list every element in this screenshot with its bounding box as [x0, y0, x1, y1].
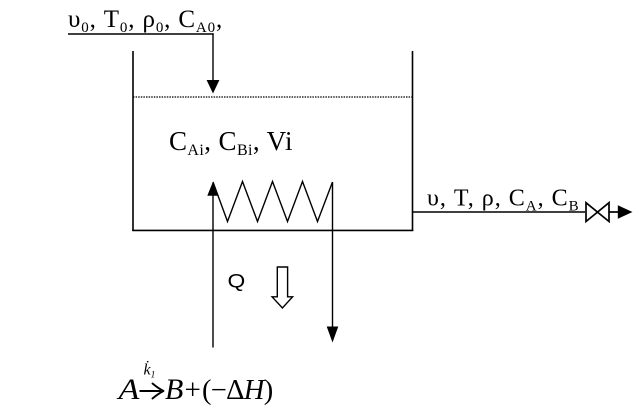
svg-text:+: + — [185, 374, 201, 406]
outlet arrowhead — [618, 205, 633, 218]
outlet pipe wire — [413, 211, 586, 213]
svg-text:B: B — [165, 373, 183, 406]
liquid level dotted line — [133, 96, 413, 98]
heating coil zigzag — [213, 182, 333, 222]
tank bottom wall — [132, 229, 413, 231]
svg-text:υ, T, ρ, CA, CB: υ, T, ρ, CA, CB — [427, 186, 580, 215]
svg-text:(−ΔH): (−ΔH) — [202, 375, 273, 406]
valve left triangle — [586, 203, 598, 222]
coolant inlet wire (vertical, up into coil) — [212, 195, 214, 348]
inlet arrowhead into tank — [207, 80, 220, 94]
tank right wall — [412, 51, 414, 231]
svg-text:Q: Q — [228, 271, 246, 292]
inlet pipe vertical wire — [212, 33, 214, 81]
outlet wire after valve — [609, 211, 620, 213]
inlet pipe horizontal wire — [68, 33, 214, 35]
tank left wall — [132, 51, 134, 231]
valve right triangle — [598, 203, 610, 222]
coolant inlet arrowhead — [207, 182, 218, 196]
reaction arrow — [140, 384, 164, 399]
coolant outlet wire (vertical, down out of tank) — [332, 182, 334, 327]
heat removal block arrow (hollow) — [272, 267, 293, 308]
svg-text:A: A — [116, 372, 139, 406]
coolant outlet arrowhead — [327, 327, 339, 343]
